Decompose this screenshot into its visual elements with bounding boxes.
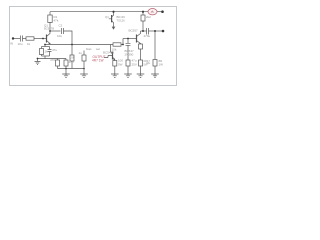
svg-text:10u: 10u (57, 34, 62, 38)
wire collector horizontal (50, 30, 61, 32)
wire rail to terminal (157, 11, 163, 13)
wire resistor to collector node (49, 22, 51, 31)
svg-text:10u: 10u (18, 42, 23, 46)
svg-text:1W: 1W (159, 63, 164, 67)
resistor R2 (26, 37, 34, 40)
wire emitter rail (45, 44, 113, 46)
node network top rail (42, 46, 50, 48)
capacitor C1 plates (21, 36, 23, 42)
ground mid4 (137, 74, 145, 77)
svg-text:2N390: 2N390 (125, 53, 134, 57)
svg-text:1k: 1k (45, 50, 49, 54)
transistor Q1 (47, 31, 51, 45)
wire Q3 emitter (114, 59, 116, 62)
node output terminal (162, 30, 165, 33)
svg-text:BD139: BD139 (117, 15, 126, 19)
resistor R10 (153, 60, 157, 67)
svg-text:47u: 47u (52, 48, 57, 52)
svg-text:47k: 47k (54, 18, 59, 22)
resistor R4 (57, 59, 59, 61)
node rail right (142, 11, 144, 13)
wire Q4 down arrow (113, 24, 115, 27)
node collector Q1 (49, 30, 51, 32)
svg-text:RL: RL (147, 61, 151, 65)
node emitter junction (44, 44, 46, 46)
capacitor C6 (127, 39, 129, 44)
wire base line Q2 (123, 38, 137, 40)
meter M1 (red) (148, 9, 157, 15)
wire cap to out (149, 30, 164, 32)
arrow head Q4 (112, 27, 116, 30)
node supply terminal (161, 10, 164, 13)
wire cap to corner riser (64, 31, 73, 45)
capacitor C3 (49, 47, 51, 50)
resistor R7 (113, 43, 121, 46)
svg-text:470: 470 (50, 58, 55, 62)
wire load column (154, 31, 156, 60)
node base Q2 (127, 38, 129, 40)
svg-text:IN: IN (10, 42, 13, 46)
wire bottom row (45, 58, 66, 60)
node collector R9 (142, 30, 144, 32)
resistor R11 emitter (140, 43, 142, 46)
wire left column from rail (49, 12, 51, 15)
resistor R1 (48, 15, 52, 23)
ground right (151, 74, 159, 77)
node riser junction (71, 44, 73, 46)
wire top rail VCC (50, 11, 148, 13)
capacitor C2 plates (62, 28, 64, 34)
border frame (10, 7, 177, 86)
wire R7 to riser (121, 39, 123, 45)
svg-text:bias: bias (86, 47, 92, 51)
svg-text:25V: 25V (132, 63, 137, 67)
transistor Q4 top (109, 12, 114, 25)
wire cap to resistor (23, 38, 27, 40)
capacitor C5 (83, 51, 85, 56)
wire resistor to base (34, 38, 47, 40)
svg-text:2k2: 2k2 (146, 15, 151, 19)
junction dots (12, 10, 165, 69)
ground mid-left (62, 69, 70, 78)
resistor R9 (141, 15, 145, 21)
svg-text:5W: 5W (118, 63, 123, 67)
ground mid2 (111, 74, 119, 77)
node rail Q4 (112, 11, 114, 13)
svg-text:4R7 1W: 4R7 1W (92, 58, 104, 62)
wire network to ground node (38, 56, 46, 59)
ground mid (80, 69, 88, 78)
node R7 out (122, 44, 124, 46)
wire R9 to collector (142, 21, 144, 31)
svg-text:10k: 10k (70, 56, 75, 60)
ground left (35, 59, 41, 65)
svg-text:C2: C2 (59, 24, 63, 28)
svg-text:BC547B: BC547B (44, 26, 54, 30)
node ground rail 1 (65, 68, 67, 70)
resistor R8 (126, 60, 130, 66)
svg-text:Q4: Q4 (105, 15, 109, 19)
node network bottom rail (42, 55, 50, 57)
node ground rail 2 (83, 68, 85, 70)
node ground stub (37, 58, 39, 60)
transistor Q3 (104, 45, 115, 60)
svg-text:1k: 1k (27, 42, 31, 46)
svg-text:1u: 1u (79, 51, 83, 55)
wire ground rail (58, 68, 85, 70)
svg-text:47u: 47u (69, 60, 74, 64)
capacitor C7 plates (147, 28, 149, 35)
node out junction (154, 30, 156, 32)
svg-text:TO126: TO126 (117, 18, 126, 22)
svg-text:10k: 10k (112, 48, 117, 52)
wire vcc drop column (142, 12, 144, 15)
wire emitter network stub (44, 45, 46, 47)
svg-text:470u: 470u (144, 34, 151, 38)
resistor R5 (71, 45, 73, 56)
wire input (14, 38, 20, 40)
svg-text:BC557: BC557 (129, 28, 139, 32)
node base junction (42, 38, 44, 40)
svg-text:set: set (96, 47, 100, 51)
node input terminal (12, 37, 14, 39)
resistor R3 (41, 47, 43, 49)
ground mid3 (124, 74, 132, 77)
capacitor C4 (65, 59, 67, 61)
wire Q2 collector row (141, 30, 147, 32)
capacitor C9 (139, 60, 143, 66)
resistor R6 (113, 61, 117, 67)
transistor Q2 (137, 31, 141, 44)
